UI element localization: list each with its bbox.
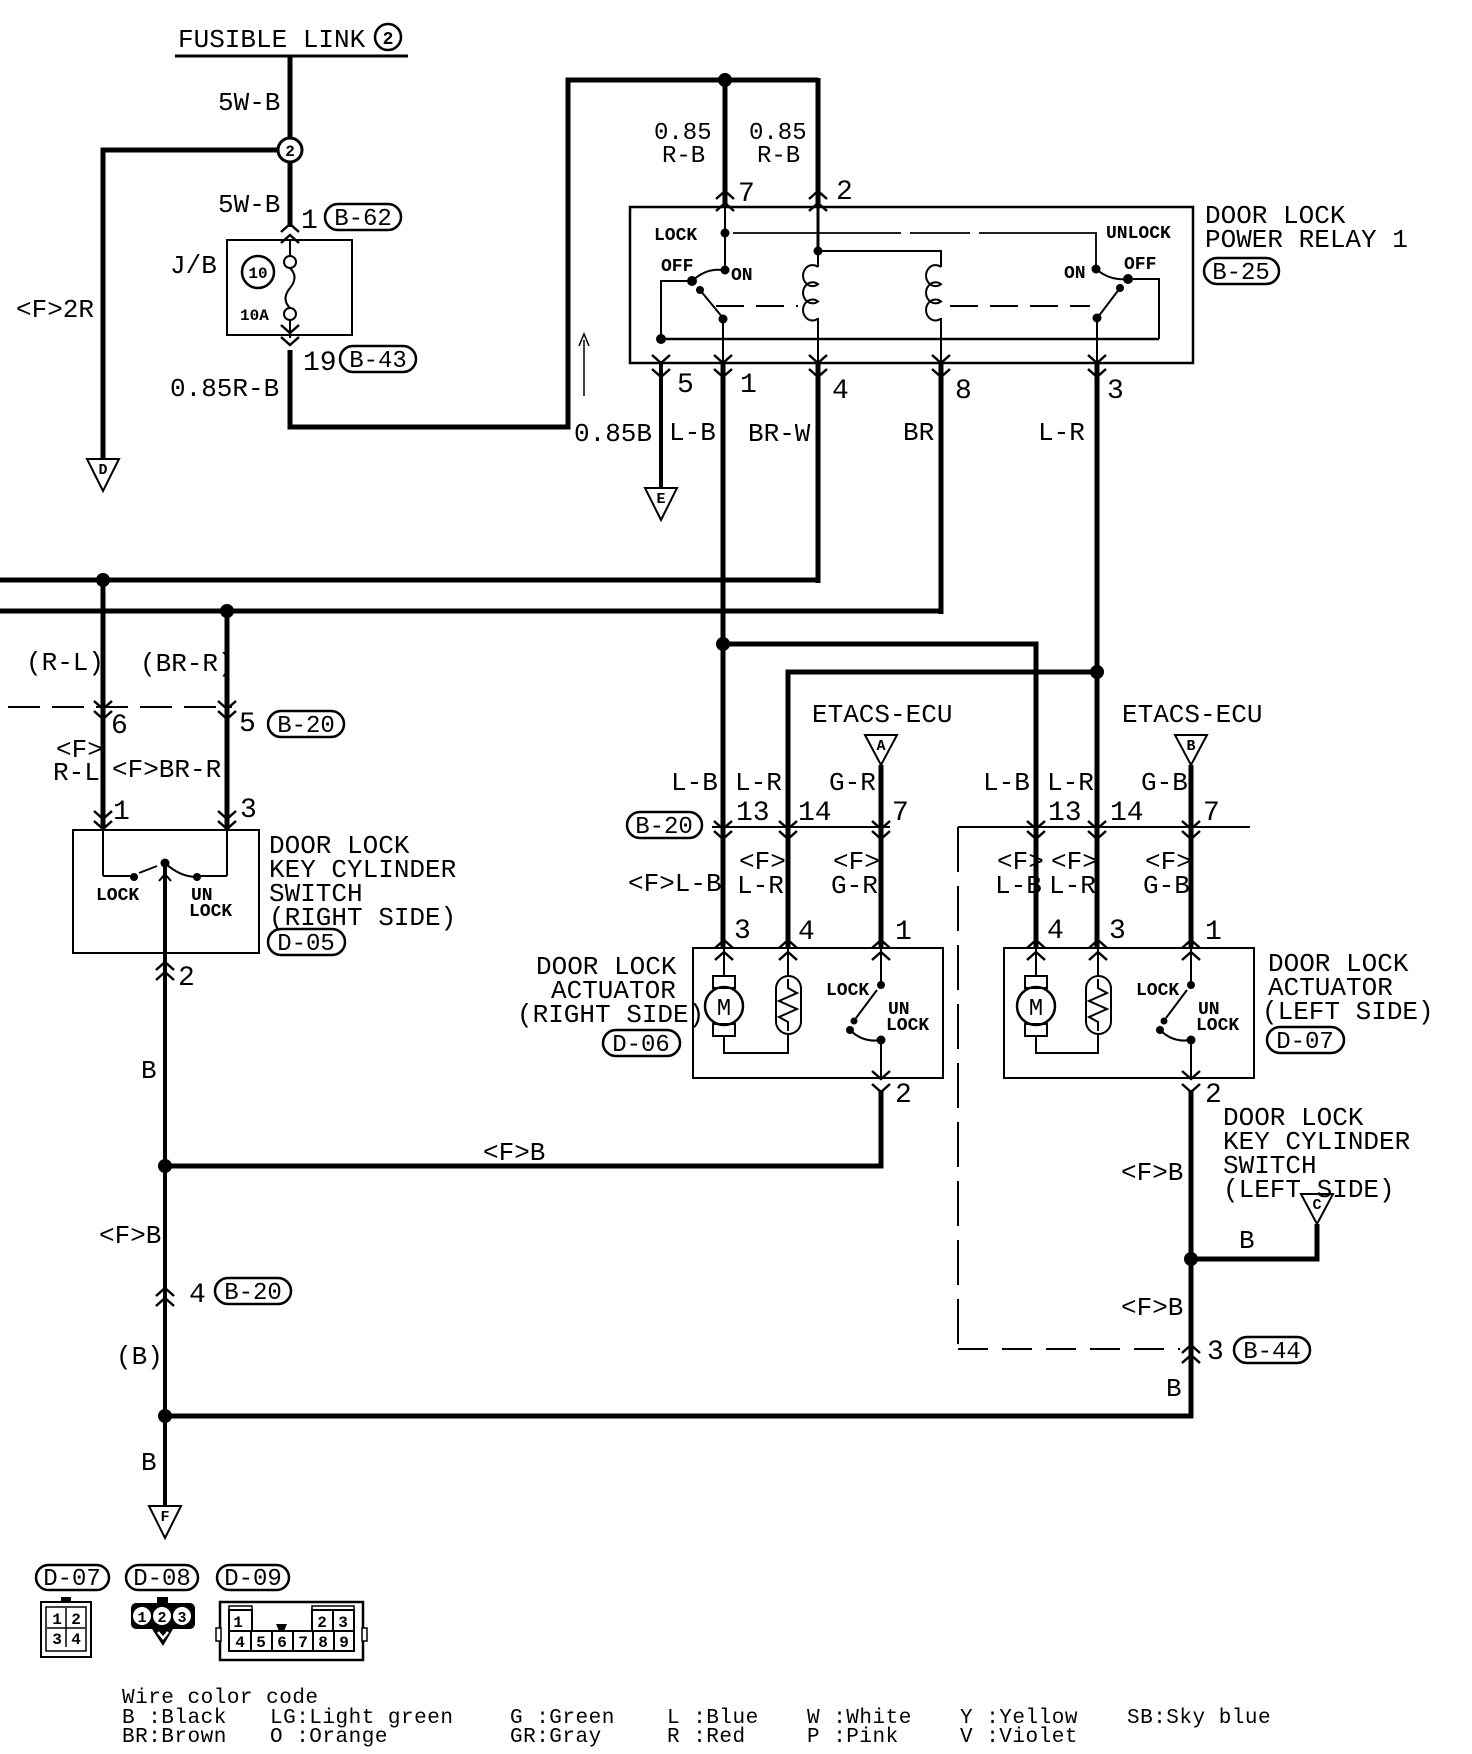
svg-text:2: 2 xyxy=(383,30,394,50)
junction bus1 / key switch pin 6 xyxy=(96,573,110,587)
svg-text:LOCK: LOCK xyxy=(1196,1016,1239,1036)
svg-text:ON: ON xyxy=(1064,264,1086,284)
wire key switch pin2 continues down xyxy=(163,1166,167,1416)
ground bus wire B xyxy=(164,1414,1193,1419)
svg-text:G-B: G-B xyxy=(1143,871,1190,901)
ground E xyxy=(645,488,677,520)
svg-text:C: C xyxy=(1312,1197,1321,1214)
svg-text:2: 2 xyxy=(836,177,853,208)
switch S1 DOOR LOCK KEY CYLINDER SWITCH (RIGHT SIDE) box xyxy=(73,830,259,953)
bus wire 2 (BR-R) xyxy=(0,609,943,614)
resistor R1 right actuator xyxy=(776,948,801,1034)
label (F) R-L xyxy=(53,735,103,788)
pin 6 arrow xyxy=(94,701,112,719)
svg-text:B: B xyxy=(141,1448,157,1478)
ground F xyxy=(149,1506,181,1538)
connector triangle B xyxy=(1175,735,1207,765)
pin 3 arrow B-44 xyxy=(1182,1345,1200,1363)
svg-text:LOCK: LOCK xyxy=(1136,981,1179,1001)
svg-text:BR: BR xyxy=(903,418,934,448)
svg-text:6: 6 xyxy=(277,1634,287,1652)
label UN LOCK xyxy=(189,886,232,922)
svg-text:1: 1 xyxy=(301,206,318,237)
junction L-B split xyxy=(716,637,730,651)
door boundary dashed line vertical xyxy=(957,827,959,1349)
pin 1 arrow key switch xyxy=(94,811,112,829)
svg-text:3: 3 xyxy=(1107,376,1124,407)
svg-text:13: 13 xyxy=(1048,798,1082,829)
pin 5 arrow xyxy=(652,355,670,377)
pin 14 arrow left group xyxy=(1088,821,1106,839)
svg-text:8: 8 xyxy=(318,1634,328,1652)
pin 8 arrow xyxy=(932,355,950,377)
svg-text:(RIGHT SIDE): (RIGHT SIDE) xyxy=(517,1000,704,1030)
connector D-07 pinout drawing xyxy=(41,1597,91,1657)
svg-text:GR:Gray: GR:Gray xyxy=(510,1726,602,1749)
label (F) L-R xyxy=(737,847,786,901)
svg-text:L-R: L-R xyxy=(1049,871,1096,901)
svg-text:R :Red: R :Red xyxy=(667,1726,746,1749)
connector label D-05 xyxy=(268,929,345,958)
svg-text:4: 4 xyxy=(235,1634,245,1652)
actuator M2 DOOR LOCK ACTUATOR (LEFT SIDE) box xyxy=(1004,948,1254,1078)
relay internal bottom bus xyxy=(661,338,1159,341)
pin 2 arrow key switch xyxy=(156,962,174,980)
wire key switch pin 2 down xyxy=(163,953,167,1168)
svg-text:2: 2 xyxy=(178,963,195,994)
label (F) G-B left group xyxy=(1143,847,1192,901)
svg-text:UNLOCK: UNLOCK xyxy=(1106,224,1171,244)
relay U1 DOOR LOCK POWER RELAY 1 box xyxy=(630,207,1193,363)
svg-text:4: 4 xyxy=(1047,916,1064,947)
wire 0.85 R-B to relay pin 7 xyxy=(723,80,728,207)
svg-text:3: 3 xyxy=(338,1614,348,1632)
svg-text:E: E xyxy=(656,491,665,508)
node FUSIBLE LINK 2 title xyxy=(175,24,408,56)
svg-text:<F>BR-R: <F>BR-R xyxy=(112,755,221,785)
switch right actuator lock/unlock xyxy=(846,948,886,1078)
svg-text:7: 7 xyxy=(1203,798,1220,829)
connector D-08 pinout drawing xyxy=(131,1597,195,1646)
pin 7 arrow left group xyxy=(1182,821,1200,839)
switch left actuator lock/unlock xyxy=(1156,948,1196,1078)
svg-text:5: 5 xyxy=(677,370,694,401)
svg-text:3: 3 xyxy=(734,916,751,947)
connector crossing line right group xyxy=(712,826,890,828)
svg-text:1: 1 xyxy=(895,917,912,948)
svg-text:5: 5 xyxy=(239,709,256,740)
svg-text:M: M xyxy=(1029,996,1043,1023)
pin 13 arrow left group xyxy=(1027,821,1045,839)
wire branch to key cylinder switch left xyxy=(1191,1224,1317,1259)
svg-text:(LEFT SIDE): (LEFT SIDE) xyxy=(1262,997,1434,1027)
left actuator pin arrows xyxy=(1027,940,1045,960)
svg-text:P :Pink: P :Pink xyxy=(807,1726,899,1749)
junction pin5/common xyxy=(656,334,666,344)
relay left switch SW1 xyxy=(687,266,730,324)
relay internal: pin7 wire to LOCK contact xyxy=(724,207,726,270)
svg-text:L-R: L-R xyxy=(737,871,784,901)
relay internal link LOCK to right ON xyxy=(733,233,1096,265)
svg-text:V :Violet: V :Violet xyxy=(960,1726,1078,1749)
label (F) L-B left group xyxy=(995,847,1044,901)
svg-text:B-62: B-62 xyxy=(334,206,392,233)
svg-text:D: D xyxy=(98,462,107,479)
svg-text:B: B xyxy=(141,1056,157,1086)
svg-text:LOCK: LOCK xyxy=(826,981,869,1001)
connector label B-44 xyxy=(1234,1337,1310,1366)
junction at ground bus xyxy=(158,1409,172,1423)
svg-text:OFF: OFF xyxy=(1124,255,1156,275)
svg-text:ETACS-ECU: ETACS-ECU xyxy=(1122,700,1262,730)
wire G-R from ETACS A xyxy=(879,765,884,948)
right actuator pin arrows xyxy=(715,940,733,960)
svg-text:3: 3 xyxy=(177,1610,186,1627)
mechanical link dashes left xyxy=(716,305,798,307)
svg-text:4: 4 xyxy=(832,376,849,407)
svg-text:BR:Brown: BR:Brown xyxy=(122,1726,227,1749)
svg-text:D-05: D-05 xyxy=(277,931,335,958)
svg-text:SB:Sky blue: SB:Sky blue xyxy=(1127,1707,1271,1730)
label arrow 0.85B xyxy=(579,334,589,396)
svg-text:L-B: L-B xyxy=(995,871,1042,901)
svg-text:L-R: L-R xyxy=(1047,768,1094,798)
pin 14 arrow xyxy=(779,821,797,839)
connector triangle C xyxy=(1301,1194,1333,1224)
svg-text:2: 2 xyxy=(1205,1080,1222,1111)
key cylinder switch left side title xyxy=(1223,1103,1410,1205)
svg-text:LOCK: LOCK xyxy=(96,886,139,906)
svg-text:<F>2R: <F>2R xyxy=(16,295,94,325)
connector arrow out of J/B xyxy=(281,325,299,345)
svg-text:BR-W: BR-W xyxy=(748,419,811,449)
node 2 (circled splice) xyxy=(278,138,302,162)
svg-text:ETACS-ECU: ETACS-ECU xyxy=(812,700,952,730)
svg-text:D-08: D-08 xyxy=(133,1566,191,1593)
svg-text:14: 14 xyxy=(798,798,832,829)
svg-text:D-07: D-07 xyxy=(1276,1029,1334,1056)
svg-text:2: 2 xyxy=(285,143,295,161)
svg-text:B-20: B-20 xyxy=(277,713,335,740)
svg-text:3: 3 xyxy=(1207,1337,1224,1368)
wire right blade to pin 3 xyxy=(1096,318,1098,363)
svg-text:G-R: G-R xyxy=(831,871,878,901)
wire relay pin 3 (L-R) down xyxy=(1095,363,1100,948)
svg-text:L-B: L-B xyxy=(669,418,716,448)
wire 5W-B from fusible link xyxy=(288,56,293,139)
junction L-R split xyxy=(1090,665,1104,679)
connector B-20 dashed crossing xyxy=(8,706,232,708)
svg-text:<F>B: <F>B xyxy=(483,1138,545,1168)
svg-text:B-20: B-20 xyxy=(635,814,693,841)
svg-text:0.85B: 0.85B xyxy=(574,419,652,449)
resistor R2 left actuator xyxy=(1086,948,1111,1034)
relay coil K1 (lock) xyxy=(803,251,818,363)
svg-text:8: 8 xyxy=(955,376,972,407)
svg-text:R-B: R-B xyxy=(662,143,705,170)
svg-text:(BR-R): (BR-R) xyxy=(140,649,234,679)
relay coil K2 (unlock) xyxy=(926,265,941,363)
junction bus2 / key switch pin 5 xyxy=(220,604,234,618)
svg-text:1: 1 xyxy=(233,1614,243,1632)
junction block J/B box xyxy=(227,240,352,335)
svg-text:7: 7 xyxy=(892,798,909,829)
svg-text:5: 5 xyxy=(256,1634,266,1652)
left actuator pin 2 arrow xyxy=(1182,1071,1200,1092)
connector label B-20 right group xyxy=(627,812,702,841)
svg-text:14: 14 xyxy=(1110,798,1144,829)
svg-text:ON: ON xyxy=(731,266,753,286)
connector label D-08 bottom xyxy=(126,1565,198,1593)
wire motor to resistor bottom xyxy=(724,1034,788,1053)
svg-text:(R-L): (R-L) xyxy=(26,648,104,678)
wire motor to resistor bottom left actuator xyxy=(1036,1034,1098,1053)
relay title xyxy=(1205,201,1408,255)
svg-text:L-B: L-B xyxy=(983,768,1030,798)
svg-text:3: 3 xyxy=(240,795,257,826)
svg-text:2: 2 xyxy=(157,1610,166,1627)
wire 0.85 R-B to relay pin 2 xyxy=(816,78,821,207)
junction key switch wire at F B bus xyxy=(158,1159,172,1173)
svg-text:L-B: L-B xyxy=(671,768,718,798)
wire relay pin 8 down to bus 2 xyxy=(939,363,944,614)
svg-text:L-R: L-R xyxy=(735,768,782,798)
connector label D-09 bottom xyxy=(217,1565,289,1593)
connector crossing line left group xyxy=(958,826,1250,828)
svg-text:5W-B: 5W-B xyxy=(218,88,280,118)
connector label D-07 bottom xyxy=(36,1565,109,1593)
wire left blade to pin 1 xyxy=(722,319,724,363)
svg-text:10A: 10A xyxy=(240,307,269,325)
svg-text:4: 4 xyxy=(71,1631,81,1649)
svg-text:9: 9 xyxy=(339,1634,349,1652)
svg-text:<F>L-B: <F>L-B xyxy=(628,869,722,899)
svg-text:OFF: OFF xyxy=(661,257,693,277)
wire L-B branch to left actuator pin 4 xyxy=(723,644,1036,948)
pin 7 arrow xyxy=(872,821,890,839)
connector arrow into J/B xyxy=(281,224,299,243)
svg-text:7: 7 xyxy=(298,1634,308,1652)
pin 4 arrow xyxy=(809,355,827,377)
connector label B-25 xyxy=(1204,258,1279,287)
motor M right actuator xyxy=(705,948,743,1036)
legend wire color code xyxy=(122,1687,1271,1749)
svg-text:J/B: J/B xyxy=(170,251,217,281)
svg-text:R-L: R-L xyxy=(53,758,100,788)
svg-text:G-R: G-R xyxy=(829,768,876,798)
svg-text:1: 1 xyxy=(113,797,130,828)
pin 3 arrow key switch xyxy=(218,811,236,829)
svg-text:D-06: D-06 xyxy=(612,1032,670,1059)
wire bus2 down to key switch xyxy=(225,611,230,830)
pin 3 arrow xyxy=(1088,355,1106,377)
wire G-B from ETACS B xyxy=(1189,765,1194,948)
svg-text:3: 3 xyxy=(52,1631,62,1649)
svg-text:M: M xyxy=(717,996,731,1023)
connector label B-43 xyxy=(340,346,416,375)
wire relay pin 4 down to bus 1 xyxy=(816,363,821,583)
junction coil split xyxy=(814,247,823,256)
svg-text:R-B: R-B xyxy=(757,143,800,170)
svg-text:LOCK: LOCK xyxy=(654,226,697,246)
svg-text:5W-B: 5W-B xyxy=(218,190,280,220)
left actuator title xyxy=(1262,949,1434,1027)
connector label B-62 xyxy=(325,204,401,233)
svg-text:B-25: B-25 xyxy=(1212,260,1270,287)
svg-text:<F>B: <F>B xyxy=(1121,1158,1183,1188)
pin 2 arrow xyxy=(809,191,827,211)
circled fuse number 10 xyxy=(242,256,274,288)
wire right actuator pin 2 to F B bus xyxy=(162,1090,881,1166)
wire L-R branch to right actuator pin 4 xyxy=(788,672,1097,948)
svg-text:B-44: B-44 xyxy=(1243,1339,1301,1366)
svg-text:1: 1 xyxy=(137,1610,146,1627)
door boundary dashed line horizontal xyxy=(958,1348,1180,1350)
svg-text:<F>B: <F>B xyxy=(1121,1293,1183,1323)
pin 5 arrow xyxy=(218,701,236,719)
wire relay pin 1 (L-B) down xyxy=(721,363,726,948)
svg-text:O :Orange: O :Orange xyxy=(270,1726,388,1749)
wire to coil K2 xyxy=(818,251,941,267)
svg-text:0.85R-B: 0.85R-B xyxy=(170,374,279,404)
key switch right title xyxy=(269,831,456,933)
svg-text:POWER RELAY 1: POWER RELAY 1 xyxy=(1205,225,1408,255)
junction branch to triangle C xyxy=(1184,1252,1198,1266)
bus wire 1 (R-L) xyxy=(0,578,820,583)
motor M left actuator xyxy=(1017,948,1055,1036)
wire left actuator pin 2 down xyxy=(1189,1090,1194,1418)
svg-text:(LEFT SIDE): (LEFT SIDE) xyxy=(1223,1175,1395,1205)
svg-text:L-R: L-R xyxy=(1038,418,1085,448)
right actuator title xyxy=(517,952,704,1030)
relay left common wire to pin 5 xyxy=(661,281,692,339)
svg-text:1: 1 xyxy=(52,1611,62,1629)
svg-text:1: 1 xyxy=(740,370,757,401)
svg-text:LOCK: LOCK xyxy=(189,902,232,922)
svg-text:2: 2 xyxy=(317,1614,327,1632)
svg-text:19: 19 xyxy=(303,348,337,379)
right actuator pin 2 arrow xyxy=(872,1071,890,1092)
relay right common riser xyxy=(1133,279,1159,339)
svg-text:13: 13 xyxy=(736,798,770,829)
mechanical link dashes right xyxy=(950,305,1090,307)
svg-text:B: B xyxy=(1239,1226,1255,1256)
svg-text:2: 2 xyxy=(895,1080,912,1111)
fuse 10A symbol xyxy=(284,240,296,338)
wire branch to ground D xyxy=(103,150,278,459)
wire to ground F xyxy=(163,1416,167,1506)
svg-text:7: 7 xyxy=(738,179,755,210)
svg-text:3: 3 xyxy=(1109,916,1126,947)
label (F) G-R xyxy=(831,847,880,901)
svg-text:FUSIBLE LINK: FUSIBLE LINK xyxy=(178,25,366,55)
junction at relay feed split xyxy=(718,73,732,87)
svg-text:B: B xyxy=(1186,738,1195,755)
svg-text:1: 1 xyxy=(1205,917,1222,948)
relay right switch SW2 xyxy=(1092,265,1134,323)
ground D xyxy=(87,459,119,491)
svg-text:B-20: B-20 xyxy=(224,1280,282,1307)
actuator M1 DOOR LOCK ACTUATOR (RIGHT SIDE) box xyxy=(693,948,943,1078)
label (F) L-R left group xyxy=(1049,847,1098,901)
svg-text:2: 2 xyxy=(71,1611,81,1629)
relay LOCK node xyxy=(721,229,730,238)
svg-text:6: 6 xyxy=(111,711,128,742)
wire pin5 to ground E xyxy=(659,363,663,488)
pin 1 arrow xyxy=(714,355,732,377)
connector label B-20 lower xyxy=(215,1278,291,1307)
svg-text:B: B xyxy=(1166,1374,1182,1404)
connector label D-06 xyxy=(603,1030,680,1059)
svg-text:G-B: G-B xyxy=(1141,768,1188,798)
svg-text:10: 10 xyxy=(248,265,267,283)
connector label B-20 xyxy=(268,711,344,740)
relay coil K1 feed from pin 2 xyxy=(817,207,820,251)
svg-text:<F>B: <F>B xyxy=(99,1221,161,1251)
svg-text:D-09: D-09 xyxy=(224,1566,282,1593)
label UN LOCK left actuator xyxy=(1196,1000,1239,1036)
pin 7 arrow xyxy=(716,191,734,211)
connector D-09 pinout drawing xyxy=(216,1602,367,1660)
svg-text:D-07: D-07 xyxy=(43,1566,101,1593)
svg-text:A: A xyxy=(876,738,885,755)
svg-text:4: 4 xyxy=(189,1280,206,1311)
label UN LOCK right actuator xyxy=(886,1000,929,1036)
svg-text:F: F xyxy=(160,1509,169,1526)
connector triangle A xyxy=(865,735,897,765)
pin 4 arrow B-20 xyxy=(156,1288,174,1306)
svg-text:B-43: B-43 xyxy=(349,348,407,375)
key switch right internals xyxy=(103,830,227,953)
wire 0.85R-B from J/B to relay feed xyxy=(290,80,818,427)
svg-text:(B): (B) xyxy=(116,1342,163,1372)
wire bus1 down to key switch xyxy=(101,580,106,830)
wire 5W-B to J/B xyxy=(288,162,293,227)
pin 13 arrow xyxy=(714,821,732,839)
svg-text:LOCK: LOCK xyxy=(886,1016,929,1036)
connector label D-07 xyxy=(1267,1027,1344,1056)
svg-text:4: 4 xyxy=(798,917,815,948)
